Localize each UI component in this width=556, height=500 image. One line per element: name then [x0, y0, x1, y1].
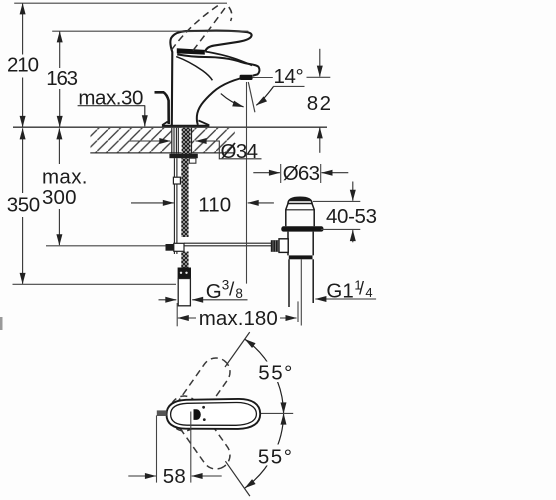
- drain tailpipe: [289, 259, 313, 325]
- pop-up waste tailpiece step: [289, 255, 313, 259]
- svg-text:max.: max.: [42, 166, 88, 189]
- dashed raised lever: [172, 4, 232, 51]
- dimension 163: [44, 31, 248, 127]
- label G3/8 with arrows: [159, 277, 248, 303]
- mounting surface hatched slab: [13, 127, 327, 153]
- threaded shank below counter: [172, 128, 192, 154]
- 14 degree angle arcs: [221, 87, 274, 107]
- swivel arc lower 55: [245, 414, 284, 488]
- mounting nut under counter: [169, 154, 197, 163]
- top view dashed handle rotated down: [165, 391, 236, 475]
- dimension 350: [4, 128, 176, 284]
- pop-up waste cap: [288, 197, 312, 203]
- svg-text:58: 58: [163, 465, 186, 488]
- label 55 lower: [256, 445, 297, 469]
- svg-text:350: 350: [7, 194, 40, 217]
- top view dashed handle rotated up: [165, 352, 236, 436]
- spout centerline: [246, 82, 248, 284]
- svg-text:max.180: max.180: [199, 307, 278, 330]
- svg-text:163: 163: [46, 67, 78, 90]
- label G1 1/4 with arrow: [315, 278, 376, 303]
- dimension 58: [128, 412, 221, 489]
- top view radius line upper: [225, 332, 250, 367]
- pop-up waste upper body: [286, 204, 314, 227]
- 14 degree stream line: [248, 82, 255, 112]
- svg-text:55°: 55°: [258, 362, 292, 385]
- dimension max.180: [177, 301, 298, 330]
- dimension Ø34 leader: [129, 140, 262, 163]
- dimension max.300: [40, 128, 166, 245]
- svg-text:14°: 14°: [274, 65, 304, 88]
- dimension Ø63: [253, 162, 348, 185]
- flexible hose braided: [181, 158, 188, 267]
- pop-up vertical rod: [173, 158, 180, 254]
- svg-text:G1: G1: [326, 280, 353, 303]
- dimension 110: [131, 194, 274, 217]
- svg-text:110: 110: [198, 194, 231, 217]
- top view handle stub: [157, 410, 167, 416]
- horizontal pop-up linkage rod: [166, 243, 272, 251]
- svg-text:4: 4: [365, 285, 372, 300]
- faucet base escutcheon: [162, 120, 210, 125]
- scan artifact left edge: [0, 317, 3, 330]
- svg-text:55°: 55°: [258, 445, 292, 468]
- svg-text:Ø34: Ø34: [221, 140, 259, 163]
- top view solid handle: [167, 399, 261, 429]
- hose crimp nut G3/8 end: [178, 268, 191, 306]
- svg-text:40-53: 40-53: [326, 205, 377, 228]
- svg-text:300: 300: [42, 186, 77, 209]
- faucet body outline: [170, 31, 259, 126]
- label 14 degrees: [252, 65, 304, 88]
- svg-text:Ø63: Ø63: [283, 162, 320, 185]
- top view radius line lower: [225, 461, 250, 496]
- dimension 210: [5, 3, 228, 127]
- label max.30 with leader: [78, 86, 146, 126]
- spout aerator: [240, 75, 253, 80]
- svg-text:82: 82: [307, 92, 331, 115]
- dimension 82: [307, 49, 332, 153]
- pop-up waste lower body with side port: [271, 232, 313, 256]
- top view centerline right: [253, 412, 294, 414]
- svg-text:/: /: [229, 280, 235, 301]
- svg-text:210: 210: [7, 54, 39, 77]
- svg-text:8: 8: [235, 286, 243, 301]
- svg-text:G: G: [206, 280, 222, 303]
- lever handle dark gap band: [177, 48, 205, 54]
- pop-up waste flange: [281, 226, 323, 231]
- top view handle detail blob and dots: [194, 406, 206, 421]
- svg-text:/: /: [359, 279, 364, 299]
- swivel arc upper 55: [245, 339, 284, 413]
- pop-up rod knob behind faucet: [155, 92, 169, 124]
- dimension 40-53: [313, 182, 377, 243]
- label 55 upper: [257, 362, 296, 385]
